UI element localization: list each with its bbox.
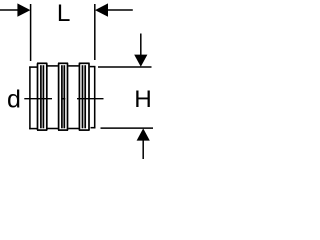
- svg-text:d: d: [7, 86, 21, 114]
- svg-text:H: H: [134, 86, 152, 113]
- svg-text:L: L: [57, 0, 71, 27]
